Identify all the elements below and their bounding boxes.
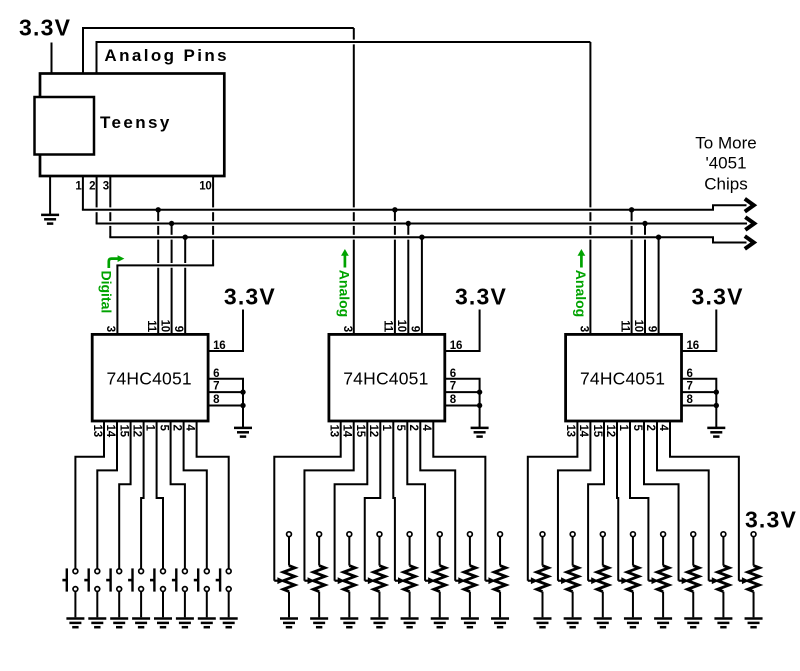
svg-text:12: 12 — [130, 425, 142, 437]
wire SW2 to ground — [96, 591, 98, 617]
junction bus S0 to U4 pin 11 — [629, 207, 634, 212]
wire U2 pin 5 to output 6 — [171, 421, 185, 569]
wire Teensy pin 1 to select bus S0 — [82, 176, 84, 210]
wire R15 to ground — [722, 616, 724, 618]
svg-text:Analog Pins: Analog Pins — [104, 46, 229, 65]
junction bus S1 to U2 pin 10 — [169, 221, 174, 226]
wire U2 pin 1 to output 5 — [157, 421, 163, 569]
svg-text:3.3V: 3.3V — [19, 15, 71, 41]
bus wire S2 — [109, 237, 746, 242]
microcontroller U1 Teensy body — [40, 74, 224, 177]
svg-text:14: 14 — [104, 425, 116, 438]
svg-text:1: 1 — [617, 425, 629, 432]
ground (R9) — [534, 619, 552, 628]
wire U4 pin 15 to output 3 — [588, 421, 604, 581]
wire Teensy pin 10 to U2 pin 3 (net DIG) — [116, 176, 214, 334]
svg-text:7: 7 — [687, 381, 693, 393]
svg-text:8: 8 — [687, 394, 694, 406]
IC U3 74HC4051 — [329, 334, 445, 421]
wire R11 to ground — [602, 616, 604, 618]
svg-text:7: 7 — [450, 381, 456, 393]
wire R4 to ground — [378, 616, 380, 618]
svg-text:3.3V: 3.3V — [455, 284, 507, 310]
pushbutton SW3 — [117, 569, 122, 592]
wire SW6 to ground — [184, 591, 186, 617]
wire bus S1 to U3 pin 10 — [407, 224, 409, 335]
wire U2 pin 4 to output 8 — [197, 421, 229, 569]
svg-text:9: 9 — [409, 326, 421, 332]
svg-text:4: 4 — [657, 425, 669, 432]
junction bus S2 to U3 pin 9 — [419, 235, 424, 240]
annotation arrow Analog (U3 pin 3) — [344, 255, 347, 268]
wire U2 pin 14 to output 2 — [97, 421, 117, 569]
wire R14 to ground — [692, 616, 694, 618]
junction U3 pin 8 — [477, 403, 482, 408]
potentiometer R3 — [347, 532, 352, 537]
wire bus S2 to U2 pin 9 — [184, 237, 186, 334]
svg-text:4: 4 — [420, 425, 432, 432]
junction bus S2 to U4 pin 9 — [656, 235, 661, 240]
svg-text:7: 7 — [213, 381, 219, 393]
wire U4 pin 2 to output 7 — [657, 421, 709, 581]
svg-text:12: 12 — [604, 425, 616, 437]
svg-text:9: 9 — [172, 326, 184, 332]
potentiometer R11 — [600, 532, 605, 537]
wire U2 pin 12 to output 4 — [141, 421, 144, 569]
svg-text:16: 16 — [450, 340, 462, 352]
wire U3 pin 12 to output 4 — [365, 421, 381, 581]
wire U3 pin 8 to ground rail — [445, 405, 480, 407]
ground (SW7) — [198, 619, 216, 628]
wire Teensy analog pin to U3 pin 3 (net ANA1) — [82, 28, 354, 334]
ground (R6) — [431, 619, 449, 628]
pushbutton SW7 — [204, 569, 209, 592]
potentiometer R9 — [540, 532, 545, 537]
wire U4 pin 12 to output 4 — [617, 421, 618, 581]
wire 3.3V to Teensy VCC — [51, 43, 53, 74]
ground (SW8) — [220, 619, 238, 628]
junction U4 pin 8 — [714, 403, 719, 408]
potentiometer R16 — [751, 532, 756, 537]
wire U4 pin 16 to 3.3V — [682, 310, 717, 352]
svg-text:2: 2 — [644, 425, 656, 431]
wire U3 pin 4 to output 8 — [433, 421, 485, 581]
wire Teensy GND pin — [49, 176, 51, 214]
wire U4 pin 1 to output 5 — [630, 421, 648, 581]
wire U4 pin 8 to ground rail — [682, 405, 717, 407]
IC U2 74HC4051 — [92, 334, 208, 421]
ground (R16) — [745, 619, 763, 628]
wire U3 pin 1 to output 5 — [393, 421, 395, 581]
ground (R4) — [370, 619, 388, 628]
ground (R13) — [654, 619, 672, 628]
wire bus S0 to U4 pin 11 — [631, 210, 633, 335]
potentiometer R1 — [287, 532, 292, 537]
wire U2 pin 2 to output 7 — [184, 421, 207, 569]
svg-text:5: 5 — [631, 425, 643, 432]
ground (Teensy) — [41, 215, 59, 224]
svg-text:6: 6 — [687, 368, 693, 380]
ground (U2) — [234, 428, 252, 437]
wire U3 pin 2 to output 7 — [420, 421, 455, 581]
ground (SW2) — [88, 619, 106, 628]
wire R6 to ground — [439, 616, 441, 618]
svg-text:'4051: '4051 — [705, 153, 746, 172]
potentiometer R2 — [317, 532, 322, 537]
svg-text:Digital: Digital — [99, 271, 115, 314]
svg-text:14: 14 — [577, 425, 589, 438]
wire U3 pin 16 to 3.3V — [445, 310, 480, 352]
wire U4 pin 4 to output 8 — [670, 421, 739, 581]
wire U3 pin 14 to output 2 — [304, 421, 353, 581]
ground (R15) — [714, 619, 732, 628]
svg-text:74HC4051: 74HC4051 — [580, 368, 665, 388]
svg-text:74HC4051: 74HC4051 — [343, 368, 428, 388]
svg-text:6: 6 — [213, 368, 219, 380]
wire U2 pin 6 to ground rail — [208, 379, 243, 427]
svg-text:15: 15 — [591, 425, 603, 438]
ground (U4) — [707, 428, 725, 437]
potentiometer R10 — [570, 532, 575, 537]
svg-text:74HC4051: 74HC4051 — [107, 368, 192, 388]
svg-text:8: 8 — [450, 394, 457, 406]
svg-text:1: 1 — [143, 425, 155, 432]
wire R5 to ground — [409, 616, 411, 618]
svg-text:11: 11 — [145, 320, 157, 333]
potentiometer R7 — [468, 532, 473, 537]
wire SW4 to ground — [140, 591, 142, 617]
wire SW7 to ground — [206, 591, 208, 617]
pushbutton SW6 — [183, 569, 188, 592]
arrow to more 4051 chips (S0) — [745, 199, 754, 212]
ground (R11) — [594, 619, 612, 628]
wire U4 pin 13 to output 1 — [528, 421, 578, 581]
wire U2 pin 7 to ground rail — [208, 391, 243, 393]
svg-text:10: 10 — [199, 180, 211, 192]
ground (R3) — [340, 619, 358, 628]
junction U3 pin 7 — [477, 389, 482, 394]
potentiometer R8 — [498, 532, 503, 537]
svg-text:16: 16 — [687, 340, 699, 352]
wire R1 to ground — [288, 616, 290, 618]
ground (SW1) — [66, 619, 84, 628]
potentiometer R5 — [407, 532, 412, 537]
svg-text:5: 5 — [157, 425, 169, 432]
svg-text:10: 10 — [158, 320, 170, 332]
wire U3 pin 7 to ground rail — [445, 391, 480, 393]
wire Teensy pin 2 to select bus S1 — [96, 176, 98, 224]
svg-text:Analog: Analog — [573, 270, 589, 317]
wire U4 pin 5 to output 6 — [644, 421, 679, 581]
annotation arrow Analog (U4 pin 3) — [580, 255, 583, 268]
arrow to more 4051 chips (S2) — [745, 236, 754, 249]
wire Teensy analog pin to U4 pin 3 (net ANA2) — [96, 42, 591, 334]
ground (R10) — [564, 619, 582, 628]
svg-text:11: 11 — [618, 320, 630, 333]
potentiometer R4 — [377, 532, 382, 537]
ground (R5) — [401, 619, 419, 628]
svg-text:3.3V: 3.3V — [224, 284, 276, 310]
junction U2 pin 7 — [240, 389, 245, 394]
wire R3 to ground — [348, 616, 350, 618]
wire R13 to ground — [662, 616, 664, 618]
svg-text:3: 3 — [341, 326, 353, 332]
svg-text:13: 13 — [91, 425, 103, 437]
svg-text:3: 3 — [578, 326, 590, 332]
wire R10 to ground — [572, 616, 574, 618]
svg-text:11: 11 — [382, 320, 394, 333]
Teensy USB connector — [35, 97, 95, 155]
svg-text:1: 1 — [380, 425, 392, 432]
arrow to more 4051 chips (S1) — [745, 217, 754, 230]
wire U3 pin 5 to output 6 — [407, 421, 425, 581]
wire U4 pin 6 to ground rail — [682, 379, 717, 427]
ground (SW5) — [154, 619, 172, 628]
svg-text:3.3V: 3.3V — [692, 284, 744, 310]
svg-text:4: 4 — [183, 425, 195, 432]
wire bus S1 to U2 pin 10 — [171, 224, 173, 335]
wire R16 to ground — [753, 616, 755, 618]
bus wire S0 — [82, 205, 747, 210]
wire Teensy pin 3 to select bus S2 — [109, 176, 111, 237]
svg-text:3.3V: 3.3V — [745, 507, 797, 533]
wire U3 pin 13 to output 1 — [274, 421, 340, 581]
wire bus S0 to U2 pin 11 — [157, 210, 159, 335]
svg-text:3: 3 — [103, 180, 109, 192]
wire bus S1 to U4 pin 10 — [644, 224, 646, 335]
ground (R12) — [624, 619, 642, 628]
svg-text:9: 9 — [645, 326, 657, 332]
ground (SW4) — [132, 619, 150, 628]
wire U4 pin 7 to ground rail — [682, 391, 717, 393]
svg-text:Teensy: Teensy — [100, 113, 172, 132]
junction U2 pin 8 — [240, 403, 245, 408]
potentiometer R12 — [631, 532, 636, 537]
wire SW3 to ground — [118, 591, 120, 617]
wire SW1 to ground — [74, 591, 76, 617]
junction bus S1 to U3 pin 10 — [406, 221, 411, 226]
junction bus S0 to U3 pin 11 — [392, 207, 397, 212]
junction bus S0 to U2 pin 11 — [156, 207, 161, 212]
ground (R14) — [684, 619, 702, 628]
wire U2 pin 16 to 3.3V — [208, 310, 243, 352]
svg-text:1: 1 — [75, 180, 82, 192]
wire bus S2 to U3 pin 9 — [421, 237, 423, 334]
annotation arrow Digital (U2 pin 3) — [109, 259, 118, 268]
wire U2 pin 15 to output 3 — [119, 421, 130, 569]
pushbutton SW1 — [73, 569, 78, 592]
junction U4 pin 7 — [714, 389, 719, 394]
potentiometer R6 — [437, 532, 442, 537]
ground (SW6) — [176, 619, 194, 628]
svg-text:16: 16 — [213, 340, 225, 352]
wire R9 to ground — [542, 616, 544, 618]
svg-text:13: 13 — [564, 425, 576, 437]
pushbutton SW8 — [226, 569, 231, 592]
potentiometer R15 — [721, 532, 726, 537]
ground (R7) — [461, 619, 479, 628]
svg-text:2: 2 — [170, 425, 182, 431]
junction bus S1 to U4 pin 10 — [642, 221, 647, 226]
svg-text:10: 10 — [632, 320, 644, 332]
svg-text:13: 13 — [328, 425, 340, 437]
svg-text:Chips: Chips — [704, 174, 747, 193]
svg-text:14: 14 — [341, 425, 353, 438]
svg-text:2: 2 — [89, 180, 95, 192]
ground (SW3) — [110, 619, 128, 628]
ground (U3) — [471, 428, 489, 437]
wire U2 pin 8 to ground rail — [208, 405, 243, 407]
svg-text:2: 2 — [407, 425, 419, 431]
wire U3 pin 15 to output 3 — [335, 421, 368, 581]
wire R7 to ground — [469, 616, 471, 618]
wire SW5 to ground — [162, 591, 164, 617]
svg-text:Analog: Analog — [336, 270, 352, 317]
svg-text:10: 10 — [395, 320, 407, 332]
wire bus S2 to U4 pin 9 — [658, 237, 660, 334]
ground (R2) — [310, 619, 328, 628]
wire U2 pin 13 to output 1 — [75, 421, 104, 569]
wire SW8 to ground — [228, 591, 230, 617]
wire U3 pin 6 to ground rail — [445, 379, 480, 427]
label To More 4051 Chips — [695, 133, 756, 193]
ground (R8) — [491, 619, 509, 628]
svg-text:12: 12 — [367, 425, 379, 437]
svg-text:6: 6 — [450, 368, 456, 380]
svg-text:8: 8 — [213, 394, 220, 406]
wire bus S0 to U3 pin 11 — [394, 210, 396, 335]
junction bus S2 to U2 pin 9 — [183, 235, 188, 240]
pushbutton SW2 — [95, 569, 100, 592]
wire R12 to ground — [632, 616, 634, 618]
potentiometer R14 — [691, 532, 696, 537]
wire R8 to ground — [499, 616, 501, 618]
IC U4 74HC4051 — [566, 334, 682, 421]
pushbutton SW4 — [139, 569, 144, 592]
pushbutton SW5 — [161, 569, 166, 592]
svg-text:5: 5 — [394, 425, 406, 432]
svg-text:To More: To More — [695, 133, 756, 152]
wire R2 to ground — [318, 616, 320, 618]
potentiometer R13 — [661, 532, 666, 537]
svg-text:15: 15 — [354, 425, 366, 438]
bus wire S1 — [96, 223, 747, 225]
svg-text:3: 3 — [104, 326, 116, 332]
ground (R1) — [280, 619, 298, 628]
wire U4 pin 14 to output 2 — [558, 421, 590, 581]
svg-text:15: 15 — [117, 425, 129, 438]
